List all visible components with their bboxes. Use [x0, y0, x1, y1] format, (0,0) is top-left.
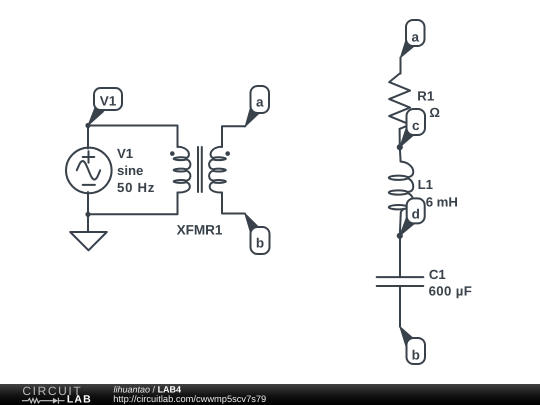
wire inductor to node d [400, 213, 401, 236]
footer bar [0, 384, 540, 405]
junction dot at V1 flag anchor [85, 123, 90, 128]
capacitor C1 plates [377, 277, 424, 286]
svg-text:d: d [412, 207, 420, 222]
node flag a (left) [245, 86, 269, 126]
transformer XFMR1 secondary winding [209, 147, 226, 193]
voltage source V1 [66, 148, 112, 194]
wire node a to resistor (right circuit) [400, 58, 402, 74]
svg-text:50 Hz: 50 Hz [117, 180, 155, 195]
node flag a (right) [400, 20, 424, 58]
svg-text:600 µF: 600 µF [429, 283, 472, 298]
logo diode triangle [53, 398, 58, 404]
junction dot node c [397, 144, 403, 150]
svg-text:http://circuitlab.com/cwwmp5sc: http://circuitlab.com/cwwmp5scv7s79 [113, 394, 266, 404]
wire V1 label junction down to source [87, 126, 89, 149]
wire source bottom to ground junction [87, 192, 89, 214]
transformer XFMR1 core [198, 147, 202, 192]
transformer XFMR1 primary winding [174, 147, 191, 193]
svg-text:LAB: LAB [67, 394, 92, 405]
node flag c [400, 109, 425, 147]
inductor L1 [389, 162, 413, 213]
svg-text:a: a [411, 30, 419, 45]
wire resistor to node c [399, 129, 401, 147]
node flag V1 [88, 88, 122, 126]
svg-text:a: a [256, 94, 264, 109]
node flag d [400, 198, 425, 235]
resistor R1 [389, 74, 410, 129]
svg-text:V1: V1 [100, 94, 117, 109]
wire transformer right top to node a [222, 126, 245, 147]
wire top-left horizontal V1 to transformer [88, 126, 178, 148]
svg-text:V1: V1 [117, 146, 133, 161]
svg-text:Ω: Ω [429, 105, 440, 120]
label V1 source name/value [117, 146, 155, 195]
node flag b (right) [400, 327, 425, 365]
svg-text:C1: C1 [429, 267, 446, 282]
transformer XFMR1 primary polarity dot [170, 151, 175, 156]
svg-text:b: b [256, 235, 264, 250]
wire node c to inductor [399, 147, 402, 162]
svg-text:R1: R1 [417, 88, 434, 103]
svg-text:L1: L1 [418, 177, 433, 192]
ground [70, 232, 107, 250]
junction dot node d [397, 233, 403, 239]
wire node d to capacitor [399, 236, 401, 278]
logo schematic mark: resistor + diode [22, 398, 65, 404]
svg-text:XFMR1: XFMR1 [177, 222, 223, 237]
svg-text:6 mH: 6 mH [426, 194, 458, 209]
wire capacitor to node b [399, 286, 401, 327]
wire ground stem [87, 214, 89, 232]
wire bottom-left horizontal to transformer [88, 193, 178, 215]
svg-text:c: c [412, 118, 420, 133]
node flag b (left) [245, 213, 270, 254]
svg-text:sine: sine [117, 163, 143, 178]
svg-text:b: b [412, 347, 420, 362]
junction dot at ground node [85, 212, 90, 217]
transformer XFMR1 secondary polarity dot [225, 151, 230, 156]
wire transformer right bottom to node b [222, 193, 245, 214]
